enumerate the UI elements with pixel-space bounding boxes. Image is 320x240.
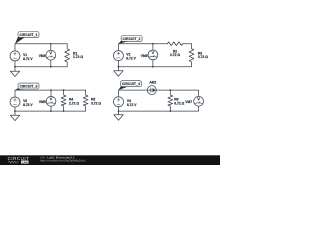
voltmeter VM7: [194, 96, 204, 106]
voltmeter VM5: [46, 90, 56, 111]
resistor R4: [61, 90, 66, 111]
label R3 3.72 ohm: [198, 51, 208, 59]
voltage source V4: [114, 90, 124, 111]
label V4 8.72 V: [127, 99, 137, 107]
junction dots C1: [14, 43, 52, 68]
junction dots C4: [118, 89, 172, 112]
ammeter AM1: [147, 86, 156, 95]
svg-text:8.72 V: 8.72 V: [127, 103, 137, 107]
svg-text:1.72 Ω: 1.72 Ω: [73, 55, 83, 59]
label AM1: [149, 80, 156, 84]
wire top rail C2: [118, 43, 167, 45]
junction dots C3: [14, 89, 64, 112]
voltage source V2: [113, 44, 123, 67]
wire top rail C4 left: [119, 89, 148, 91]
svg-text:8.72 V: 8.72 V: [23, 57, 33, 61]
label R2 2.72 ohm: [170, 49, 180, 57]
svg-text:CIRCUIT_1: CIRCUIT_1: [19, 33, 37, 37]
junction dots C2: [118, 43, 154, 68]
label VM6: [141, 54, 148, 58]
svg-text:LAB: LAB: [22, 160, 28, 164]
label V1 8.72 V: [23, 53, 33, 61]
svg-text:2.72 Ω: 2.72 Ω: [69, 102, 79, 106]
ground C2: [114, 67, 123, 77]
voltmeter VM4: [46, 44, 56, 67]
resistor R1: [65, 44, 70, 67]
wire bottom rail C3: [15, 110, 86, 112]
label R6 6.72 ohm: [174, 98, 184, 106]
CircuitLab logo: [8, 156, 30, 164]
svg-text:CIRCUIT_2: CIRCUIT_2: [123, 37, 141, 41]
svg-text:VM5: VM5: [39, 100, 46, 104]
label VM5: [39, 100, 46, 104]
footer title text: [40, 156, 86, 163]
voltage source V1: [10, 44, 20, 67]
resistor R6: [168, 90, 173, 111]
wire bottom rail C2: [118, 66, 191, 68]
ground C3: [10, 111, 19, 121]
svg-text:VM6: VM6: [141, 54, 148, 58]
resistor R5: [83, 90, 88, 111]
resistor R2 (horizontal): [167, 42, 182, 46]
wire top rail C1: [15, 43, 67, 45]
node label CIRCUIT_1: [15, 32, 39, 45]
wire top rail C2 right: [183, 43, 192, 45]
svg-text:2.72 Ω: 2.72 Ω: [170, 53, 180, 57]
svg-text:CIRCUIT_4: CIRCUIT_4: [122, 82, 140, 86]
svg-text:8.72 V: 8.72 V: [23, 103, 33, 107]
label V3 8.72 V: [23, 99, 33, 107]
svg-text:3.72 Ω: 3.72 Ω: [198, 55, 208, 59]
wire top rail C3: [15, 89, 86, 91]
label R5 3.72 ohm: [91, 98, 101, 106]
svg-text:VM4: VM4: [39, 54, 46, 58]
node label CIRCUIT_4: [118, 81, 141, 90]
wire bottom rail C1: [15, 66, 67, 68]
label V2 8.72 V: [126, 53, 136, 61]
svg-text:https://circuitlab.com/c/8wf2q: https://circuitlab.com/c/8wf2q9hk6q2/lab…: [40, 159, 86, 162]
svg-text:8.72 V: 8.72 V: [126, 57, 136, 61]
label R4 2.72 ohm: [69, 98, 79, 106]
ground C4: [114, 111, 123, 120]
node label CIRCUIT_2: [118, 36, 142, 45]
label R1 1.72 ohm: [73, 51, 83, 59]
resistor R3: [189, 44, 194, 67]
ground C1: [10, 67, 19, 77]
label VM4: [39, 54, 46, 58]
label VM7: [185, 100, 192, 104]
wire bottom rail C4: [119, 106, 199, 111]
wire top rail C4 right: [156, 90, 199, 96]
svg-text:6.72 Ω: 6.72 Ω: [174, 102, 184, 106]
svg-text:3.72 Ω: 3.72 Ω: [91, 102, 101, 106]
svg-text:VM7: VM7: [185, 100, 192, 104]
voltmeter VM6: [148, 44, 158, 67]
node label CIRCUIT_3: [15, 83, 39, 90]
voltage source V3: [10, 90, 20, 111]
svg-text:AM1: AM1: [149, 80, 156, 84]
svg-text:CIRCUIT_3: CIRCUIT_3: [19, 85, 37, 89]
